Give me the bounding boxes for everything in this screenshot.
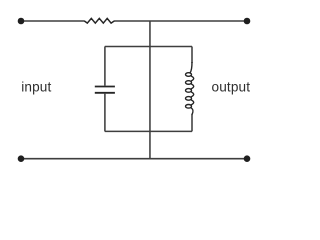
svg-text:output: output — [212, 80, 251, 95]
svg-text:input: input — [21, 80, 51, 95]
